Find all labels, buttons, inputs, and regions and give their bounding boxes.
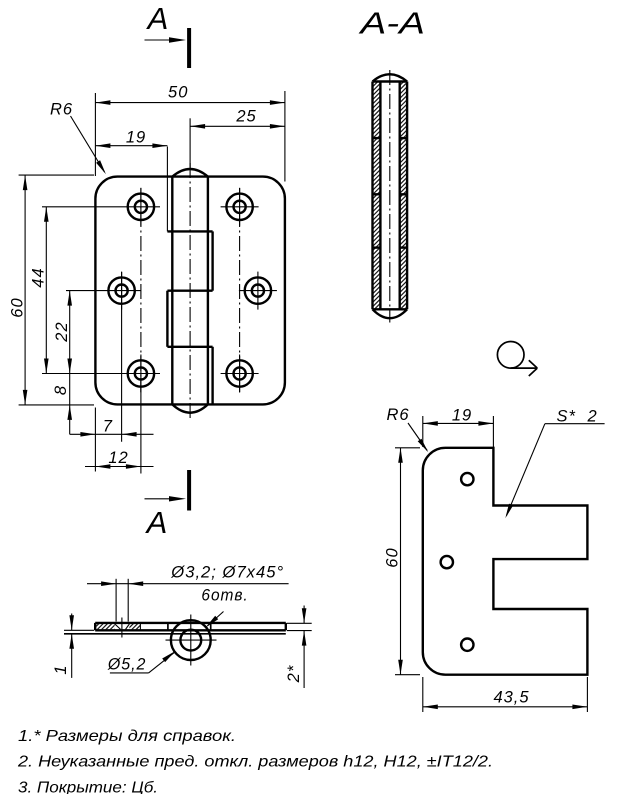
dim 22 — [53, 291, 72, 374]
countersink cone edges (side view) — [115, 624, 130, 630]
knuckle joint step 3 — [167, 346, 212, 348]
leaf plate outline (side view) — [95, 623, 286, 630]
svg-text:1.* Размеры для справок.: 1.* Размеры для справок. — [18, 728, 236, 745]
barrel axis centerline — [189, 118, 191, 420]
section A-A axis centerline — [389, 70, 391, 323]
knuckle K4 right notch edge — [211, 347, 213, 405]
dim 8 — [52, 374, 72, 435]
dim 43,5 extension lines — [423, 677, 588, 712]
dim 7 extension lines — [95, 272, 121, 472]
hole column centerline left — [140, 188, 142, 392]
pin bore circle Ø5,2 (side view) — [180, 630, 201, 651]
hole centerline (side view) — [121, 618, 123, 638]
svg-text:R6: R6 — [50, 101, 73, 119]
leader R6 (right leaf view) — [387, 406, 429, 452]
section A-A pin bottom cap — [373, 309, 408, 318]
hole middle (right leaf view) — [441, 556, 453, 568]
back leaf bottom edge line (side view) — [64, 633, 286, 635]
section A-A hatched wall left — [373, 82, 381, 310]
hole crosshair + dim extension (bottom row) — [42, 373, 259, 375]
svg-text:60: 60 — [384, 547, 402, 567]
countersunk hole middle-left (front view) — [108, 272, 134, 310]
knuckle K2 right edge — [211, 231, 213, 290]
dim Ø3,2 ; Ø7x45° with leader shelf — [87, 564, 289, 587]
svg-text:S*: S* — [557, 408, 576, 426]
svg-text:Ø5,2: Ø5,2 — [107, 656, 146, 674]
dim 19 (right leaf) — [423, 407, 494, 426]
hatched section left leaf (side view) — [96, 624, 140, 630]
dim 25 — [190, 108, 285, 129]
hole crosshair + dim 44 extension (top row) — [42, 206, 259, 208]
section A-A pin top cap — [373, 74, 408, 81]
section cut plane bar (top) — [187, 28, 191, 68]
barrel knuckle left edge line — [171, 177, 173, 405]
barrel bottom cap arc — [172, 404, 208, 412]
svg-text:2: 2 — [587, 408, 598, 426]
dim 60 extension lines (front) — [19, 175, 94, 405]
svg-text:A: A — [146, 1, 169, 36]
hinge leaf plate outline (front view) — [95, 177, 285, 405]
dim 50 extension lines — [95, 91, 285, 182]
dim 60 extension lines (right leaf) — [395, 448, 420, 675]
note 1 — [18, 728, 236, 745]
view title A-A — [358, 6, 425, 41]
right leaf outline (unfolded view) — [423, 448, 588, 675]
countersunk hole middle-right (front view) — [245, 272, 271, 310]
knuckle joint step 2 — [167, 290, 212, 292]
dim 12 — [85, 449, 154, 469]
svg-text:19: 19 — [126, 129, 146, 147]
dim 1 extension line — [64, 629, 94, 631]
svg-text:12: 12 — [108, 449, 128, 467]
svg-text:60: 60 — [9, 297, 27, 317]
local section boundary line — [139, 623, 141, 631]
svg-text:22: 22 — [53, 321, 71, 342]
note 3 — [18, 779, 158, 794]
hole top (right leaf view) — [461, 473, 473, 485]
svg-text:2*: 2* — [285, 665, 303, 684]
dim 19 extension line — [166, 147, 168, 232]
barrel top cap arc — [172, 169, 208, 177]
section A-A pin bore walls — [380, 82, 399, 310]
dim Ø3,2 extension lines — [116, 579, 128, 622]
dim 44 — [30, 207, 49, 374]
barrel knuckle right edge line — [207, 177, 209, 405]
dim 19 extension lines (right leaf) — [423, 416, 494, 447]
knuckle joint step 1 — [167, 230, 212, 232]
hole crosshair + dim 22 extension (middle row) — [66, 290, 277, 292]
note 2 — [17, 753, 493, 770]
dim 7 — [70, 418, 154, 437]
knuckle K3 left edge — [166, 291, 168, 347]
dim 2* extension lines — [287, 623, 312, 630]
view direction indicator arrow — [511, 360, 538, 376]
svg-text:6отв.: 6отв. — [201, 587, 248, 605]
section A-A hatched wall right — [400, 82, 407, 310]
section cut label A (top) — [146, 1, 169, 36]
svg-text:44: 44 — [30, 267, 48, 287]
hole column centerline right — [239, 188, 241, 392]
svg-text:43,5: 43,5 — [493, 689, 529, 707]
dim 12 extension line — [140, 378, 142, 474]
section A-A knuckle joint lines — [373, 138, 408, 248]
section cut arrow (top) — [145, 37, 187, 42]
label 6 holes (6отв.) — [201, 587, 248, 605]
leader R6 (front view) — [50, 101, 106, 175]
svg-text:1: 1 — [52, 664, 70, 674]
svg-text:2. Неуказанные пред. откл. раз: 2. Неуказанные пред. откл. размеров h12,… — [17, 753, 493, 770]
leaf/barrel division lines (side view) — [168, 623, 211, 630]
leader arrow to barrel (side view) — [206, 612, 224, 628]
dim 60 (right leaf) — [384, 448, 403, 675]
section cut arrow (bottom) — [145, 496, 187, 501]
countersunk hole top-left (front view) — [128, 188, 154, 226]
dim 1 — [52, 614, 74, 678]
countersunk hole bottom-left (front view) — [128, 355, 154, 393]
hole bottom (right leaf view) — [461, 639, 473, 651]
svg-text:25: 25 — [235, 108, 256, 126]
svg-text:50: 50 — [168, 84, 188, 102]
svg-text:3. Покрытие: Цб.: 3. Покрытие: Цб. — [18, 779, 158, 794]
dim 2* — [285, 606, 306, 689]
countersunk hole bottom-right (front view) — [226, 355, 252, 393]
dim 50 — [95, 84, 285, 105]
dim 19 — [95, 129, 167, 149]
countersunk hole top-right (front view) — [226, 188, 252, 226]
label S* 2 thickness with leader — [505, 408, 604, 519]
svg-text:R6: R6 — [387, 406, 410, 424]
view direction indicator circle — [497, 342, 524, 369]
svg-text:Ø3,2; Ø7x45°: Ø3,2; Ø7x45° — [170, 564, 284, 582]
dim 43,5 — [423, 689, 588, 710]
svg-text:A-A: A-A — [358, 6, 425, 41]
label Ø5,2 with leader — [107, 651, 175, 674]
svg-text:19: 19 — [452, 407, 472, 425]
svg-text:8: 8 — [52, 385, 70, 395]
section cut label A (bottom) — [145, 505, 168, 540]
svg-text:7: 7 — [103, 418, 113, 436]
section A-A pin outer walls — [373, 82, 408, 310]
svg-text:A: A — [145, 505, 168, 540]
section cut plane bar (bottom) — [187, 470, 191, 511]
barrel centerlines (side view) — [166, 615, 217, 666]
barrel outer circle (side view) — [171, 620, 211, 660]
dim 60 (front) — [9, 175, 28, 405]
